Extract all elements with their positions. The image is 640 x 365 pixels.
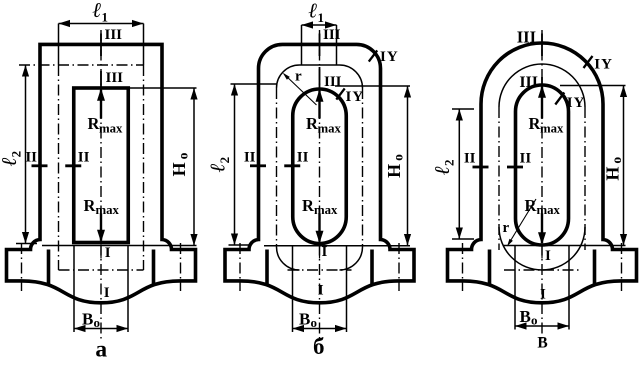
svg-text:o: o	[391, 154, 406, 161]
l2 label v	[430, 160, 457, 175]
svg-text:I: I	[105, 245, 111, 261]
svg-text:III: III	[517, 28, 536, 47]
l1 dimension line b	[302, 24, 337, 26]
B0 extension lines b	[292, 246, 294, 333]
svg-text:r: r	[503, 220, 510, 236]
center axis v	[541, 30, 543, 341]
section III tick top a	[100, 34, 102, 57]
B0 dimension line a	[74, 328, 128, 330]
outer contour panel b	[225, 44, 414, 302]
svg-text:o: o	[94, 315, 101, 330]
section II tick on outer edge a	[32, 164, 48, 167]
svg-text:r: r	[295, 69, 302, 85]
svg-text:o: o	[609, 157, 624, 164]
svg-text:I: I	[545, 248, 551, 264]
l1 dimension line a	[59, 23, 144, 25]
left foot inner edge a	[47, 250, 51, 285]
inner contour b	[293, 89, 347, 243]
left foot axis b	[239, 243, 241, 291]
H0 dimension a	[130, 87, 197, 89]
right foot axis a	[180, 243, 182, 291]
right foot inner edge v	[593, 250, 597, 285]
thin preform contour v	[499, 64, 585, 107]
l2 top extension b	[231, 83, 277, 85]
inner contour v	[516, 85, 569, 245]
section III tick inner b	[319, 67, 321, 91]
outer contour panel v	[448, 43, 637, 303]
svg-text:III: III	[106, 70, 124, 86]
svg-text:max: max	[318, 122, 342, 136]
section II tick on inner edge a	[65, 164, 81, 167]
IY mark inner v	[555, 93, 564, 105]
svg-text:o: o	[311, 315, 318, 330]
svg-text:IY: IY	[594, 56, 613, 72]
thin preform contour a	[19, 64, 144, 66]
svg-text:B: B	[520, 307, 531, 326]
svg-text:II: II	[297, 149, 309, 165]
svg-text:max: max	[537, 203, 561, 217]
inner contour a	[74, 88, 129, 243]
B0 dimension line b	[293, 328, 347, 330]
svg-text:max: max	[96, 203, 120, 217]
section II tick on inner edge v	[507, 166, 523, 169]
section II tick on outer edge v	[473, 166, 489, 169]
l2 dimension a	[25, 65, 27, 244]
B0 extension lines a	[73, 246, 75, 333]
l1 extension / leg axes a	[58, 24, 60, 66]
svg-text:II: II	[244, 149, 256, 165]
thin preform contour b	[277, 65, 363, 88]
svg-text:I: I	[104, 285, 110, 301]
section III tick inner v	[541, 77, 543, 93]
r leader b	[284, 74, 317, 105]
svg-text:IY: IY	[346, 89, 365, 105]
svg-text:III: III	[323, 27, 341, 43]
left foot inner edge v	[488, 250, 492, 285]
svg-text:o: o	[531, 313, 538, 328]
svg-text:II: II	[464, 151, 476, 167]
l2 label a	[0, 151, 24, 166]
R_max lower arrow v	[541, 214, 543, 243]
B0 extension lines v	[514, 246, 516, 330]
svg-text:max: max	[99, 122, 123, 136]
l2 dimension b	[234, 84, 236, 245]
svg-text:а: а	[95, 337, 107, 360]
center line segment below inner contour v	[541, 246, 543, 259]
l2 dimension v	[458, 109, 460, 239]
section III tick top v	[541, 34, 543, 57]
left foot inner edge b	[265, 250, 269, 285]
svg-text:o: o	[176, 152, 191, 159]
section II tick on inner edge b	[284, 164, 300, 167]
R_max lower arrow b	[318, 214, 320, 242]
l2 bottom extension b	[229, 244, 251, 246]
H0 label a	[169, 152, 191, 176]
svg-text:H: H	[169, 162, 189, 176]
svg-text:б: б	[313, 334, 325, 359]
l1 extension lines b	[301, 25, 303, 65]
svg-text:II: II	[25, 149, 37, 165]
svg-text:II: II	[520, 151, 532, 167]
center line segment below inner contour a	[100, 246, 102, 259]
svg-text:B: B	[82, 310, 93, 329]
svg-text:IY: IY	[567, 95, 586, 111]
outer contour panel a	[7, 44, 196, 302]
R_max upper arrow a	[100, 90, 102, 119]
svg-text:max: max	[540, 122, 564, 136]
svg-text:В: В	[537, 335, 547, 352]
svg-text:I: I	[318, 283, 324, 299]
l2 bottom extension v	[452, 238, 474, 240]
R_max lower arrow a	[100, 214, 102, 241]
left foot axis a	[21, 243, 23, 291]
center axis b	[319, 30, 321, 341]
r leader v	[509, 199, 537, 244]
svg-text:max: max	[314, 203, 338, 217]
IY mark top b	[369, 50, 377, 61]
svg-text:H: H	[384, 164, 404, 178]
right foot inner edge b	[370, 250, 374, 285]
svg-text:II: II	[78, 149, 90, 165]
section III tick top b	[319, 34, 321, 57]
R_max upper arrow v	[541, 87, 543, 119]
l2 top extension v	[452, 108, 474, 110]
center axis a	[100, 30, 102, 341]
R_max upper arrow b	[318, 91, 320, 119]
H0 label b	[384, 154, 406, 178]
left foot axis v	[462, 243, 464, 291]
H0 dimension b	[335, 85, 410, 87]
right foot axis b	[398, 243, 400, 291]
svg-text:III: III	[324, 74, 342, 90]
section II tick on outer edge b	[250, 164, 266, 167]
IY mark top v	[584, 56, 593, 68]
svg-text:I: I	[540, 287, 546, 303]
svg-text:III: III	[519, 74, 538, 91]
svg-text:IY: IY	[380, 49, 399, 65]
B0 dimension line v	[515, 325, 569, 327]
section III tick inner a	[100, 71, 102, 91]
svg-text:H: H	[603, 167, 623, 181]
IY mark inner b	[336, 88, 344, 99]
right foot inner edge a	[152, 250, 156, 285]
l2 label b	[206, 157, 233, 172]
H0 dimension v	[560, 85, 626, 87]
svg-text:B: B	[299, 310, 310, 329]
svg-text:III: III	[105, 27, 123, 43]
l2 bottom extension a	[16, 243, 37, 245]
center line segment below inner contour b	[319, 246, 321, 259]
H0 label v	[603, 157, 625, 181]
right foot axis v	[621, 243, 623, 291]
